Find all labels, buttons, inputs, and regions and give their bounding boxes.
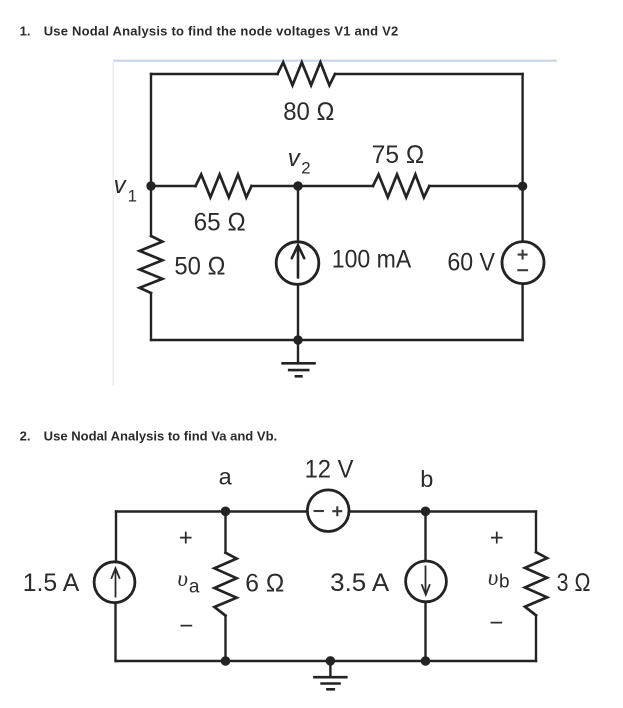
- svg-text:3.5 A: 3.5 A: [330, 569, 389, 597]
- current source 3.5A circle: [406, 561, 447, 602]
- wire left branch lower: [150, 293, 152, 340]
- wire left branch above 1.5A source: [115, 512, 117, 562]
- svg-text:a: a: [189, 577, 200, 598]
- svg-text:−: −: [179, 613, 193, 640]
- svg-text:1: 1: [128, 186, 137, 205]
- node V2 junction dot: [293, 181, 302, 190]
- voltage source 12V minus sign: [314, 506, 343, 516]
- svg-text:Use Nodal Analysis to find Va: Use Nodal Analysis to find Va and Vb.: [44, 428, 278, 443]
- wire top-right segment: [335, 73, 523, 75]
- wire node a branch upper: [224, 512, 226, 553]
- node a bottom junction dot: [221, 656, 231, 666]
- svg-text:3 Ω: 3 Ω: [557, 569, 591, 597]
- svg-text:Use Nodal Analysis to find the: Use Nodal Analysis to find the node volt…: [44, 23, 399, 38]
- wire top rail left of 12V source: [116, 510, 307, 512]
- wire left branch to resistor: [150, 186, 152, 236]
- wire node b branch lower: [424, 602, 426, 662]
- wire middle-left segment: [151, 185, 196, 187]
- wire node b branch upper: [424, 512, 426, 560]
- label node v1: [114, 172, 137, 205]
- current source I1 arrow: [292, 245, 304, 277]
- svg-text:12 V: 12 V: [305, 456, 354, 484]
- svg-text:6 Ω: 6 Ω: [245, 570, 284, 598]
- svg-text:1.: 1.: [20, 23, 31, 38]
- wire node a branch lower: [224, 616, 226, 661]
- svg-text:100 mA: 100 mA: [332, 245, 411, 273]
- svg-text:75 Ω: 75 Ω: [372, 141, 425, 169]
- figure 1 frame left edge: [113, 62, 114, 386]
- voltage source V 60V circle: [502, 242, 544, 284]
- node b bottom junction dot: [421, 656, 431, 666]
- wire v2 left segment: [252, 185, 374, 187]
- svg-text:a: a: [219, 463, 233, 489]
- wire ground stub: [297, 340, 299, 362]
- resistor 75ohm zigzag: [373, 175, 429, 198]
- current source 1.5A circle: [94, 562, 135, 603]
- svg-text:b: b: [420, 466, 433, 492]
- wire bottom rail: [116, 660, 536, 662]
- svg-text:60 V: 60 V: [447, 249, 495, 277]
- node b junction dot: [421, 507, 431, 517]
- wire bottom: [151, 339, 523, 341]
- wire middle branch lower: [297, 285, 299, 340]
- wire ground stub circuit 2: [329, 661, 331, 676]
- svg-text:υ: υ: [177, 566, 188, 591]
- svg-text:v: v: [288, 145, 302, 172]
- wire right branch lower: [521, 284, 523, 340]
- wire left branch upper: [150, 74, 152, 186]
- current source 1.5A arrow (up): [111, 568, 120, 597]
- problem 1 title: [20, 23, 399, 38]
- wire right branch upper: [535, 512, 537, 553]
- wire middle branch upper: [297, 186, 299, 241]
- voltage source 12V plus sign: [332, 506, 342, 516]
- svg-text:65 Ω: 65 Ω: [194, 208, 246, 236]
- svg-text:b: b: [499, 572, 510, 593]
- current source I1 100mA circle: [276, 242, 319, 285]
- wire right branch upper: [521, 74, 523, 241]
- label vb: [488, 565, 510, 593]
- resistor 65ohm zigzag: [196, 175, 252, 198]
- ground symbol circuit 2: [313, 677, 348, 689]
- svg-text:−: −: [489, 610, 503, 637]
- node bottom junction dot: [293, 335, 302, 344]
- ground symbol circuit 1: [281, 363, 316, 376]
- svg-text:2: 2: [301, 158, 310, 177]
- wire right branch lower: [535, 615, 537, 661]
- node a junction dot: [221, 507, 231, 517]
- svg-text:+: +: [179, 524, 193, 551]
- label node v2: [288, 145, 311, 177]
- svg-text:80 Ω: 80 Ω: [283, 98, 335, 126]
- voltage source V minus sign: [517, 269, 528, 271]
- svg-text:2.: 2.: [20, 428, 31, 443]
- svg-text:1.5 A: 1.5 A: [23, 569, 79, 597]
- label va: [177, 566, 200, 598]
- ground node junction dot: [326, 656, 336, 666]
- node V1 junction dot: [146, 181, 155, 190]
- wire top-left segment: [151, 73, 278, 75]
- resistor 80ohm zigzag: [278, 62, 336, 85]
- voltage source V plus sign: [517, 250, 528, 271]
- resistor 6ohm zigzag: [214, 553, 236, 616]
- current source 3.5A arrow (down): [422, 566, 430, 595]
- wire middle-right segment: [429, 185, 522, 187]
- svg-text:+: +: [490, 524, 504, 551]
- voltage source 12V circle: [307, 490, 349, 532]
- problem 2 title: [20, 428, 278, 443]
- resistor 50ohm zigzag: [140, 236, 163, 293]
- node right-middle junction dot: [518, 182, 527, 191]
- wire top rail right of 12V source: [350, 510, 536, 512]
- svg-text:50 Ω: 50 Ω: [174, 253, 225, 281]
- svg-text:υ: υ: [488, 565, 499, 590]
- wire left branch below 1.5A source: [114, 604, 117, 662]
- figure 1 frame top edge: [113, 60, 557, 62]
- svg-text:v: v: [114, 172, 128, 199]
- resistor 3ohm zigzag: [525, 552, 547, 615]
